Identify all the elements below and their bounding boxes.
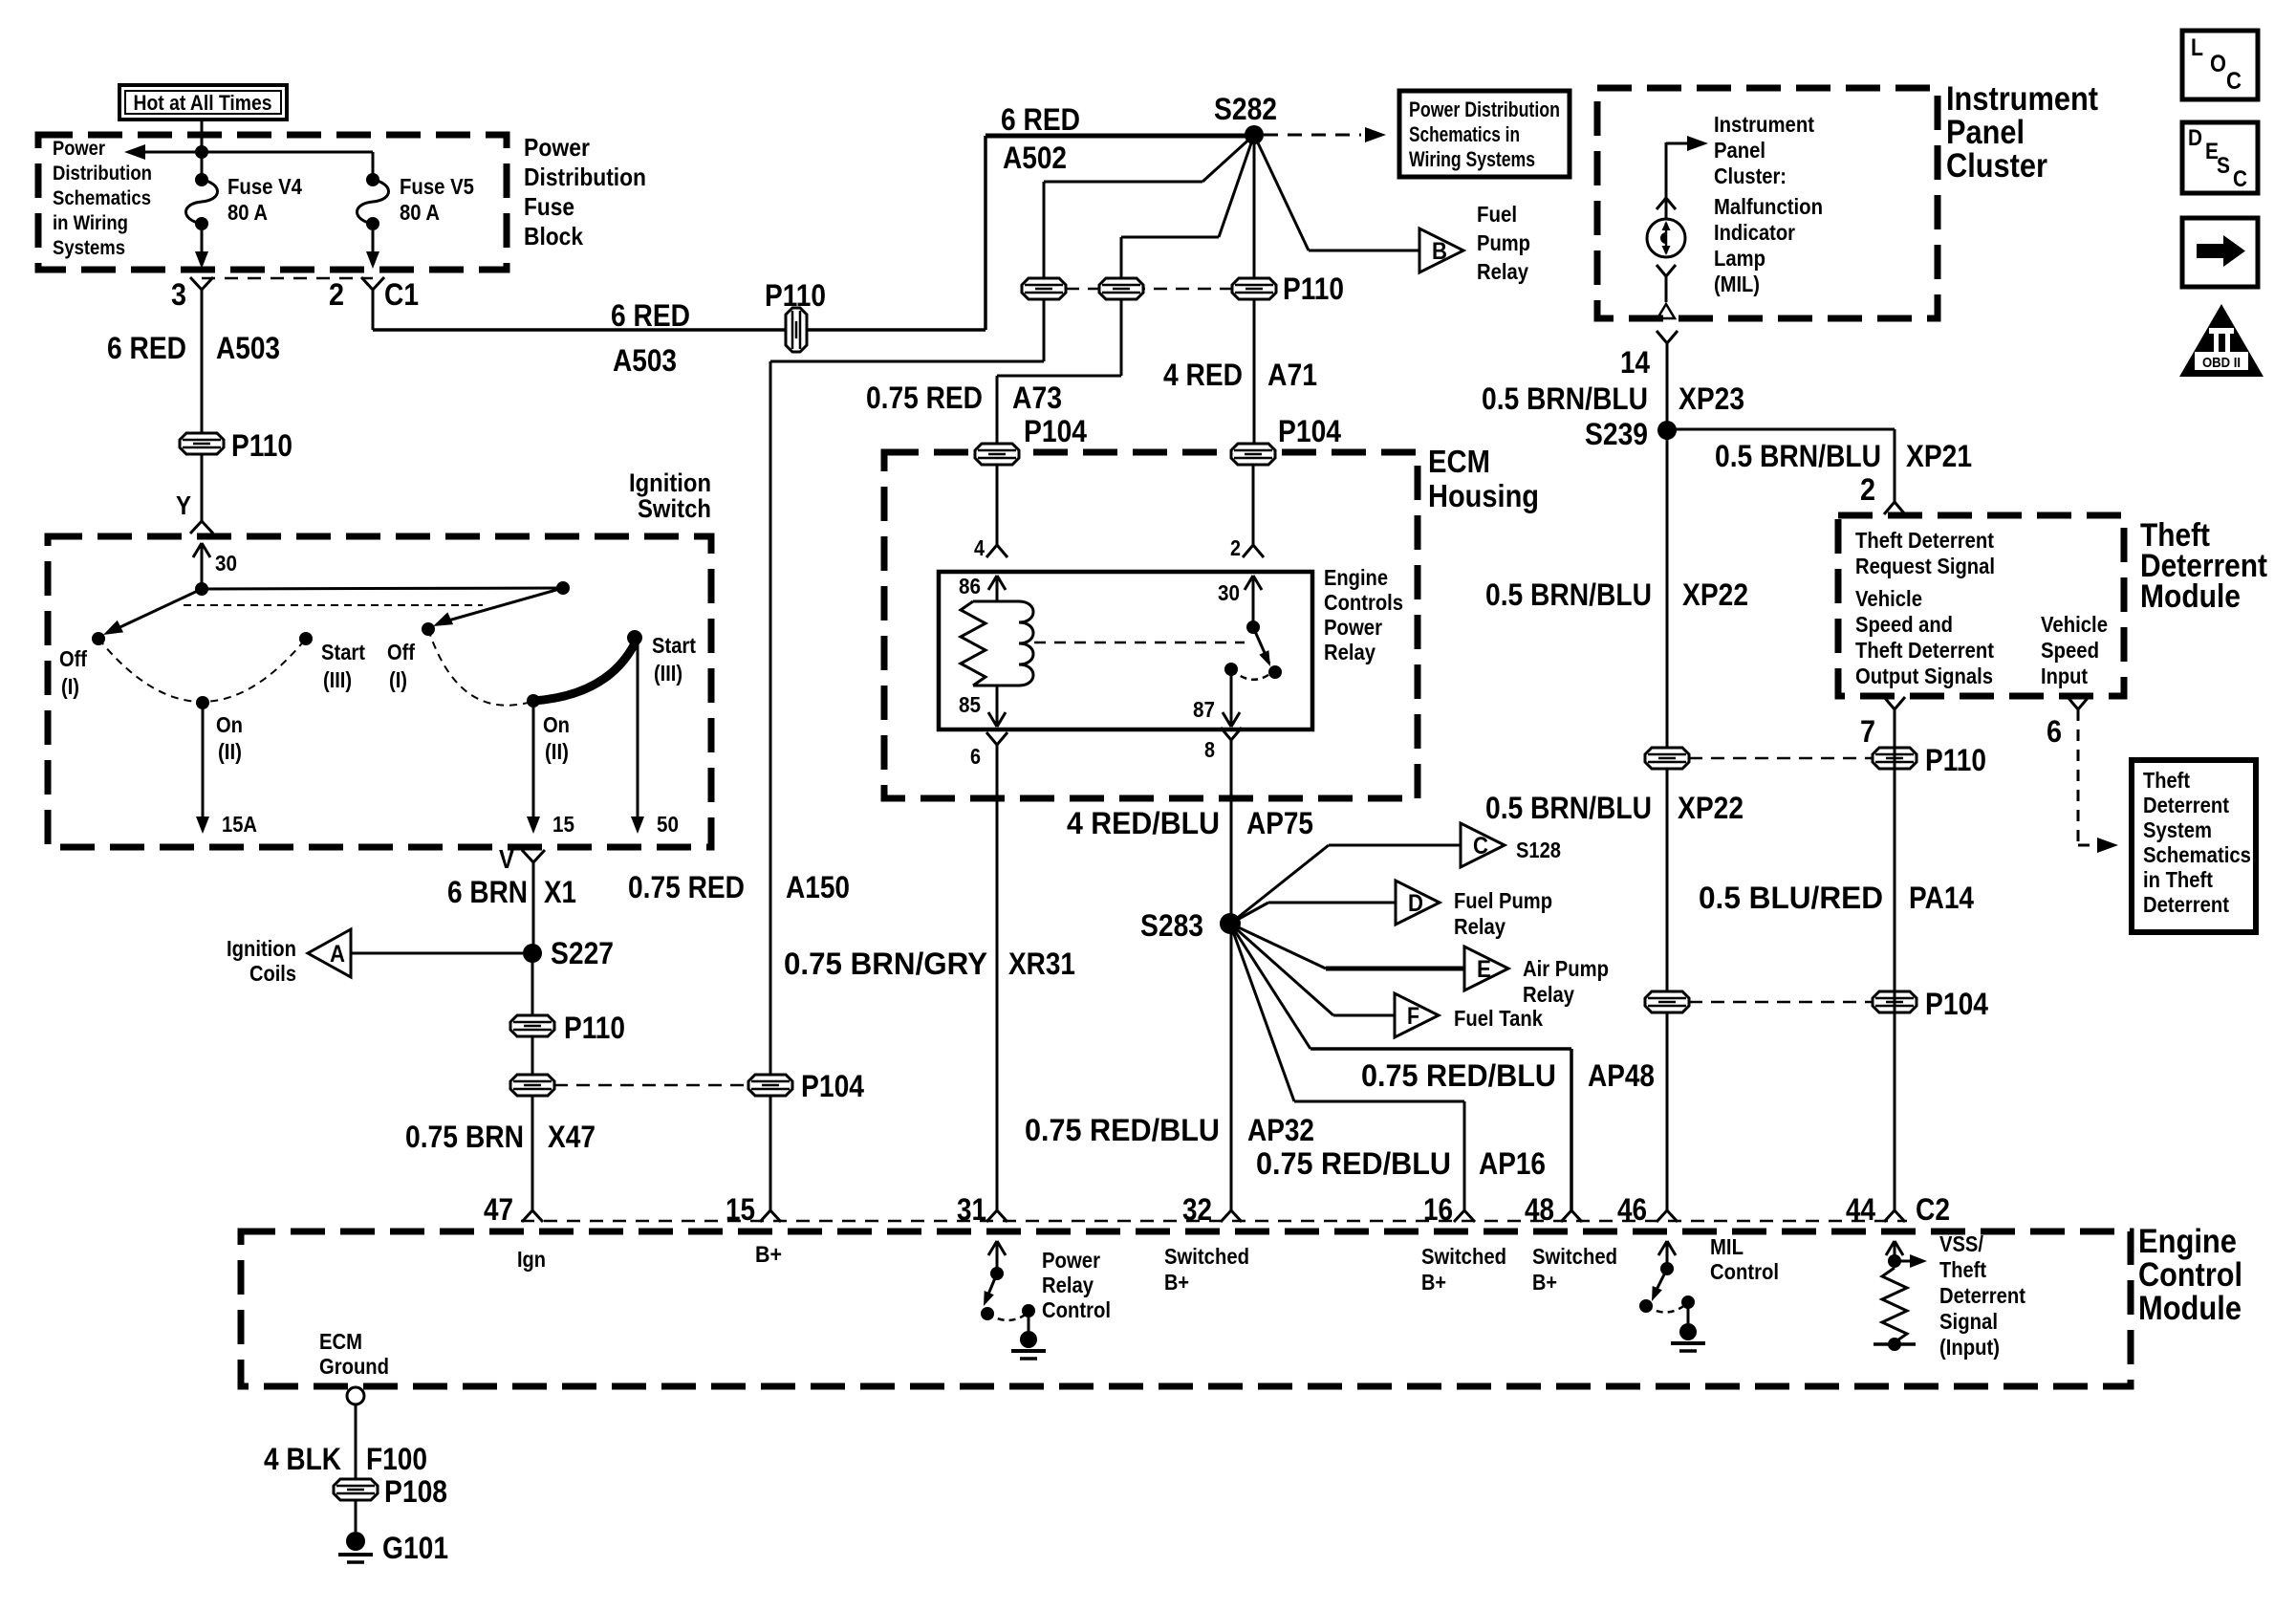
- svg-text:S239: S239: [1585, 417, 1648, 451]
- svg-text:Instrument: Instrument: [1946, 80, 2098, 118]
- svg-text:Theft Deterrent: Theft Deterrent: [1855, 528, 1994, 553]
- svg-text:S227: S227: [551, 936, 614, 970]
- svg-text:Deterrent: Deterrent: [2143, 892, 2229, 917]
- svg-text:0.5 BRN/BLU: 0.5 BRN/BLU: [1485, 791, 1652, 825]
- svg-text:Signal: Signal: [1939, 1309, 1998, 1334]
- svg-text:F: F: [1407, 1003, 1419, 1030]
- svg-text:2: 2: [1230, 535, 1241, 560]
- svg-text:Switched: Switched: [1421, 1244, 1506, 1269]
- svg-text:4 BLK: 4 BLK: [264, 1442, 341, 1476]
- svg-text:0.75 RED/BLU: 0.75 RED/BLU: [1025, 1113, 1220, 1147]
- svg-text:B+: B+: [1421, 1270, 1446, 1295]
- svg-text:XP22: XP22: [1682, 577, 1748, 612]
- svg-text:Engine: Engine: [2138, 1223, 2237, 1260]
- svg-text:E: E: [1477, 956, 1491, 983]
- svg-text:Power: Power: [1324, 615, 1382, 640]
- svg-text:Block: Block: [524, 222, 583, 250]
- svg-text:Fuse V5: Fuse V5: [400, 174, 474, 199]
- svg-text:0.75 RED/BLU: 0.75 RED/BLU: [1256, 1146, 1451, 1181]
- svg-text:(Input): (Input): [1939, 1335, 2000, 1360]
- svg-text:Relay: Relay: [1042, 1273, 1094, 1297]
- svg-text:XP22: XP22: [1678, 791, 1744, 825]
- svg-text:Ground: Ground: [319, 1354, 389, 1379]
- svg-text:4 RED/BLU: 4 RED/BLU: [1067, 806, 1220, 840]
- svg-text:Vehicle: Vehicle: [1855, 586, 1922, 611]
- svg-text:Input: Input: [2041, 664, 2088, 688]
- svg-text:in Theft: in Theft: [2143, 867, 2213, 892]
- svg-text:Start: Start: [652, 633, 696, 658]
- svg-text:S283: S283: [1140, 908, 1203, 943]
- svg-text:Switched: Switched: [1532, 1244, 1617, 1269]
- svg-text:6 RED: 6 RED: [611, 298, 690, 333]
- svg-text:D: D: [2188, 125, 2202, 151]
- svg-text:Fuel: Fuel: [1477, 202, 1517, 227]
- svg-text:0.75 RED/BLU: 0.75 RED/BLU: [1361, 1058, 1556, 1093]
- svg-text:V: V: [499, 844, 514, 874]
- svg-text:P104: P104: [1925, 987, 1988, 1021]
- svg-text:Relay: Relay: [1454, 914, 1505, 939]
- svg-text:D: D: [1408, 890, 1423, 917]
- svg-text:4 RED: 4 RED: [1163, 358, 1243, 392]
- svg-text:Panel: Panel: [1714, 138, 1765, 163]
- svg-text:6: 6: [2047, 714, 2062, 749]
- svg-text:(MIL): (MIL): [1714, 272, 1760, 296]
- svg-text:Ignition: Ignition: [629, 468, 711, 497]
- svg-text:B+: B+: [1164, 1270, 1189, 1295]
- svg-text:P110: P110: [1283, 272, 1344, 306]
- svg-text:Off: Off: [387, 640, 415, 664]
- svg-text:(II): (II): [218, 739, 242, 764]
- svg-text:2: 2: [1860, 472, 1875, 507]
- svg-text:On: On: [543, 712, 570, 737]
- svg-text:4: 4: [974, 535, 985, 560]
- svg-text:C: C: [1473, 833, 1488, 860]
- svg-text:Housing: Housing: [1428, 478, 1539, 513]
- svg-text:87: 87: [1193, 697, 1215, 722]
- svg-text:8: 8: [1204, 737, 1215, 762]
- svg-text:Fuel Tank: Fuel Tank: [1454, 1006, 1543, 1031]
- svg-text:Off: Off: [59, 646, 87, 671]
- svg-text:Fuse: Fuse: [524, 192, 574, 221]
- svg-text:C: C: [2233, 166, 2247, 192]
- svg-text:Wiring Systems: Wiring Systems: [1409, 147, 1535, 171]
- svg-text:Theft: Theft: [2143, 768, 2190, 793]
- svg-text:2: 2: [329, 277, 344, 312]
- svg-text:OBD II: OBD II: [2202, 355, 2241, 371]
- svg-text:Control: Control: [1042, 1297, 1111, 1322]
- svg-text:XP23: XP23: [1679, 381, 1744, 416]
- svg-text:B+: B+: [1532, 1270, 1557, 1295]
- svg-text:X47: X47: [548, 1120, 596, 1154]
- svg-text:7: 7: [1860, 714, 1875, 749]
- svg-text:Indicator: Indicator: [1714, 220, 1795, 245]
- svg-text:Schematics: Schematics: [53, 187, 151, 209]
- svg-text:3: 3: [171, 277, 186, 312]
- svg-text:A503: A503: [613, 343, 677, 378]
- svg-text:VSS/: VSS/: [1939, 1231, 1984, 1256]
- svg-text:Pump: Pump: [1477, 230, 1530, 255]
- svg-text:P108: P108: [384, 1474, 447, 1509]
- svg-text:(III): (III): [323, 667, 352, 692]
- svg-text:86: 86: [959, 574, 981, 599]
- svg-text:Output Signals: Output Signals: [1855, 664, 1993, 688]
- svg-text:C: C: [2226, 68, 2242, 95]
- svg-text:Theft Deterrent: Theft Deterrent: [1855, 638, 1994, 663]
- svg-text:(I): (I): [389, 667, 407, 692]
- svg-text:Request Signal: Request Signal: [1855, 554, 1995, 578]
- svg-text:Fuel Pump: Fuel Pump: [1454, 888, 1552, 913]
- svg-text:On: On: [216, 712, 243, 737]
- svg-text:Malfunction: Malfunction: [1714, 194, 1823, 219]
- svg-text:Panel: Panel: [1946, 114, 2025, 151]
- svg-text:Power: Power: [53, 138, 105, 160]
- svg-text:80 A: 80 A: [227, 200, 268, 225]
- svg-text:Fuse V4: Fuse V4: [227, 174, 302, 199]
- svg-text:80 A: 80 A: [400, 200, 440, 225]
- svg-text:Relay: Relay: [1324, 640, 1375, 664]
- svg-text:15A: 15A: [222, 812, 257, 837]
- svg-text:(II): (II): [545, 739, 569, 764]
- svg-text:XR31: XR31: [1008, 947, 1075, 981]
- svg-text:Ignition: Ignition: [227, 936, 296, 961]
- svg-text:XP21: XP21: [1906, 439, 1972, 473]
- svg-text:AP16: AP16: [1479, 1146, 1546, 1181]
- svg-text:6 BRN: 6 BRN: [447, 875, 528, 909]
- svg-text:Coils: Coils: [249, 961, 296, 986]
- svg-text:P110: P110: [231, 428, 292, 463]
- svg-text:ECM: ECM: [1428, 444, 1490, 479]
- svg-text:A71: A71: [1267, 358, 1317, 392]
- svg-text:Start: Start: [321, 640, 365, 664]
- svg-text:S: S: [2217, 153, 2230, 179]
- svg-text:0.5 BRN/BLU: 0.5 BRN/BLU: [1485, 577, 1652, 612]
- svg-text:Cluster:: Cluster:: [1714, 163, 1787, 188]
- svg-text:0.5 BRN/BLU: 0.5 BRN/BLU: [1482, 381, 1648, 416]
- svg-text:Engine: Engine: [1324, 565, 1388, 590]
- svg-text:Speed and: Speed and: [1855, 612, 1953, 637]
- svg-text:6: 6: [970, 744, 981, 769]
- svg-text:30: 30: [215, 551, 237, 576]
- svg-text:P110: P110: [765, 278, 826, 313]
- svg-text:0.5 BLU/RED: 0.5 BLU/RED: [1699, 881, 1883, 915]
- svg-text:Schematics: Schematics: [2143, 842, 2251, 867]
- svg-text:A73: A73: [1012, 381, 1062, 415]
- svg-text:Relay: Relay: [1477, 259, 1528, 284]
- svg-text:AP32: AP32: [1247, 1113, 1314, 1147]
- svg-text:AP48: AP48: [1588, 1058, 1655, 1093]
- svg-text:O: O: [2210, 51, 2226, 77]
- svg-text:Air Pump: Air Pump: [1523, 956, 1609, 981]
- svg-text:C2: C2: [1916, 1192, 1950, 1227]
- svg-text:14: 14: [1620, 345, 1650, 380]
- svg-text:6 RED: 6 RED: [1001, 102, 1080, 137]
- svg-text:Switched: Switched: [1164, 1244, 1249, 1269]
- svg-text:Deterrent: Deterrent: [1939, 1283, 2025, 1308]
- svg-text:(I): (I): [61, 674, 79, 699]
- svg-text:P104: P104: [1024, 414, 1087, 448]
- svg-text:System: System: [2143, 817, 2212, 842]
- svg-text:F100: F100: [366, 1442, 427, 1476]
- svg-text:(III): (III): [654, 661, 682, 686]
- svg-text:Y: Y: [176, 490, 191, 520]
- svg-text:Speed: Speed: [2041, 638, 2099, 663]
- svg-text:Distribution: Distribution: [53, 163, 152, 185]
- svg-text:Schematics in: Schematics in: [1409, 122, 1520, 146]
- svg-text:Switch: Switch: [638, 494, 711, 523]
- svg-text:Module: Module: [2140, 578, 2241, 615]
- svg-text:S282: S282: [1214, 92, 1277, 126]
- svg-text:0.5 BRN/BLU: 0.5 BRN/BLU: [1715, 439, 1881, 473]
- svg-text:P110: P110: [1925, 743, 1986, 777]
- svg-text:Distribution: Distribution: [524, 163, 646, 191]
- svg-text:Module: Module: [2138, 1290, 2242, 1327]
- svg-text:Power: Power: [1042, 1248, 1100, 1273]
- svg-text:G101: G101: [382, 1531, 448, 1565]
- svg-text:L: L: [2191, 34, 2203, 61]
- svg-text:Controls: Controls: [1324, 590, 1403, 615]
- svg-text:6 RED: 6 RED: [107, 331, 186, 365]
- svg-text:Instrument: Instrument: [1714, 112, 1814, 137]
- svg-text:B+: B+: [755, 1242, 782, 1268]
- svg-text:A502: A502: [1003, 141, 1067, 175]
- svg-text:P104: P104: [1278, 414, 1341, 448]
- svg-text:Vehicle: Vehicle: [2041, 612, 2108, 637]
- svg-text:MIL: MIL: [1710, 1234, 1744, 1259]
- svg-text:Power: Power: [524, 133, 590, 162]
- svg-text:AP75: AP75: [1246, 806, 1313, 840]
- svg-text:50: 50: [657, 812, 679, 837]
- svg-text:47: 47: [484, 1192, 513, 1227]
- svg-text:Control: Control: [2138, 1256, 2242, 1294]
- svg-text:Hot at All Times: Hot at All Times: [134, 91, 272, 115]
- svg-text:Lamp: Lamp: [1714, 246, 1765, 271]
- svg-text:P110: P110: [564, 1011, 625, 1045]
- svg-text:0.75 RED: 0.75 RED: [628, 870, 745, 904]
- svg-text:A: A: [330, 941, 345, 968]
- svg-text:Systems: Systems: [53, 237, 125, 259]
- svg-text:B: B: [1432, 238, 1447, 265]
- svg-text:PA14: PA14: [1909, 881, 1974, 915]
- svg-text:0.75 BRN/GRY: 0.75 BRN/GRY: [784, 947, 987, 981]
- svg-text:Theft: Theft: [1939, 1257, 1986, 1282]
- svg-text:Relay: Relay: [1523, 982, 1574, 1007]
- svg-text:A150: A150: [786, 870, 850, 904]
- svg-text:Cluster: Cluster: [1946, 147, 2047, 185]
- svg-text:Power Distribution: Power Distribution: [1409, 98, 1560, 121]
- svg-text:in Wiring: in Wiring: [53, 212, 128, 234]
- svg-text:Deterrent: Deterrent: [2143, 793, 2229, 817]
- svg-text:ECM: ECM: [319, 1329, 362, 1354]
- svg-text:0.75 BRN: 0.75 BRN: [405, 1120, 524, 1154]
- svg-text:Control: Control: [1710, 1259, 1779, 1284]
- svg-text:30: 30: [1218, 580, 1240, 605]
- svg-text:0.75 RED: 0.75 RED: [866, 381, 983, 415]
- svg-text:85: 85: [959, 692, 981, 717]
- svg-text:Ign: Ign: [517, 1247, 546, 1272]
- svg-text:P104: P104: [801, 1069, 864, 1103]
- svg-text:X1: X1: [544, 875, 576, 909]
- svg-text:A503: A503: [216, 331, 280, 365]
- svg-text:C1: C1: [384, 277, 419, 312]
- svg-text:S128: S128: [1516, 838, 1561, 862]
- svg-text:15: 15: [552, 812, 574, 837]
